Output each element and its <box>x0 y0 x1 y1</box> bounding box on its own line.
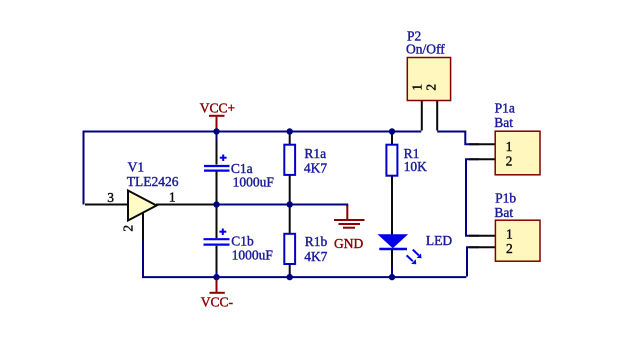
svg-text:LED: LED <box>426 233 452 248</box>
op-amp V1 pin 3 <box>85 204 128 206</box>
diode LED bottom pin <box>391 250 393 267</box>
wire bottom rail <box>143 240 466 277</box>
svg-text:1: 1 <box>169 189 176 204</box>
junction node bottom rail / VCC- <box>213 274 219 280</box>
svg-text:TLE2426: TLE2426 <box>127 174 179 189</box>
svg-text:1000uF: 1000uF <box>233 175 275 190</box>
power symbol VCC- <box>210 278 225 293</box>
svg-text:R1b: R1b <box>305 234 328 249</box>
diode LED cathode bar <box>379 248 407 251</box>
connector P2 body <box>407 58 450 101</box>
junction node top rail / R1a <box>287 128 293 134</box>
wire LED bottom <box>391 265 393 277</box>
resistor R1a pins <box>289 132 291 205</box>
connector P1a body <box>495 131 540 175</box>
junction node top rail / VCC+ / C1a <box>213 128 219 134</box>
svg-text:C1b: C1b <box>231 234 254 249</box>
junction node bottom rail / LED <box>389 274 395 280</box>
wire C1a bottom <box>216 190 218 205</box>
wire top rail and left vertical <box>84 132 422 205</box>
svg-text:Bat: Bat <box>494 115 513 130</box>
ground symbol GND <box>334 206 365 228</box>
svg-text:4K7: 4K7 <box>304 161 327 176</box>
op-amp V1 body <box>128 191 157 221</box>
capacitor C1b plus <box>219 229 226 236</box>
svg-text:10K: 10K <box>404 159 428 174</box>
svg-text:1: 1 <box>410 84 425 91</box>
svg-text:P1a: P1a <box>495 101 515 116</box>
op-amp V1 pin 1 <box>156 204 214 206</box>
svg-text:C1a: C1a <box>231 161 253 176</box>
svg-text:V1: V1 <box>128 159 145 174</box>
resistor R1 pins <box>391 132 393 236</box>
resistor R1a body <box>284 145 295 175</box>
resistor R1b body <box>284 234 295 264</box>
svg-text:2: 2 <box>120 225 135 232</box>
connector P1a pins <box>469 144 495 159</box>
diode LED body <box>379 235 407 248</box>
resistor R1b pins <box>289 205 291 278</box>
svg-text:2: 2 <box>506 153 513 168</box>
wire P2 pin2 to P1a pin1 <box>437 132 479 145</box>
capacitor C1b plates <box>204 239 230 244</box>
LED arrow 2 <box>407 255 417 264</box>
capacitor C1a plates <box>204 166 230 171</box>
capacitor C1a pins <box>216 141 218 201</box>
capacitor C1b pins <box>216 208 218 272</box>
svg-text:On/Off: On/Off <box>406 42 445 57</box>
power symbol VCC+ <box>209 116 225 131</box>
svg-text:P1b: P1b <box>495 190 516 205</box>
svg-text:2: 2 <box>424 84 439 91</box>
svg-text:VCC+: VCC+ <box>200 101 235 116</box>
wire C1a top <box>216 132 218 149</box>
connector P1b body <box>495 220 540 261</box>
connector P2 pins <box>422 101 437 131</box>
wire C1b bottom <box>216 262 218 277</box>
op-amp V1 pin 2 <box>142 212 144 241</box>
svg-text:VCC-: VCC- <box>201 295 234 310</box>
wire mid rail (V1 pin1 to GND) <box>156 205 347 207</box>
resistor R1 body <box>386 145 397 176</box>
svg-text:4K7: 4K7 <box>304 249 327 264</box>
svg-text:2: 2 <box>506 241 513 256</box>
capacitor C1a plus <box>220 155 227 162</box>
wire P1a pin2 to P1b pin1 <box>466 159 479 236</box>
svg-text:3: 3 <box>107 190 114 205</box>
svg-text:R1a: R1a <box>304 146 326 161</box>
junction node mid rail / C1a C1b <box>213 201 219 207</box>
svg-text:1: 1 <box>506 226 513 241</box>
connector P1b pins <box>469 236 495 248</box>
junction node bottom rail / R1b <box>287 274 293 280</box>
svg-text:GND: GND <box>334 236 363 251</box>
svg-text:1000uF: 1000uF <box>232 248 274 263</box>
svg-text:Bat: Bat <box>494 205 513 220</box>
junction node top rail / R1 <box>389 128 395 134</box>
wire P1b pin2 to bottom rail <box>467 247 479 276</box>
junction node mid rail / R1a R1b <box>287 201 293 207</box>
wire C1b top <box>216 205 218 227</box>
LED arrow 1 <box>413 250 422 259</box>
svg-text:1: 1 <box>506 139 513 154</box>
